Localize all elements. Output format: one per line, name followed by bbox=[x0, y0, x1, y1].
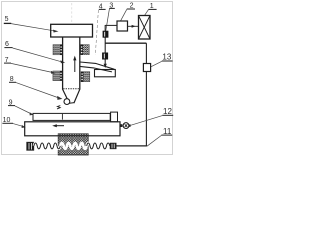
spring wave through damper bbox=[60, 143, 86, 149]
furnace top plate 5 bbox=[51, 24, 93, 37]
heater block upper-right bbox=[81, 45, 90, 55]
leader to furnace tube wall bbox=[13, 48, 62, 62]
leader of 1 to pump box bbox=[145, 10, 149, 16]
leader to table bbox=[13, 124, 24, 127]
pipe from gas line to box 2 bbox=[105, 24, 117, 26]
controller box 13 bbox=[143, 64, 150, 72]
leader to furnace top plate bbox=[11, 24, 54, 31]
heater block lower-left bbox=[53, 71, 62, 81]
vibration damper hatched block bbox=[58, 134, 88, 155]
leader to substrate plate bbox=[15, 106, 32, 114]
nozzle outlet circle bbox=[64, 99, 70, 105]
svg-text:11: 11 bbox=[163, 127, 172, 136]
vertical gas pipe bbox=[104, 25, 106, 67]
shaft coupling left of motor bbox=[120, 124, 122, 127]
heater block upper-left bbox=[53, 45, 62, 55]
side duct upper line bbox=[80, 62, 114, 69]
positioning tick bbox=[61, 114, 63, 120]
leader of 11 to base line bbox=[147, 135, 161, 146]
side duct lower line bbox=[80, 66, 112, 72]
nozzle cone bbox=[63, 89, 70, 103]
substrate plate 9 bbox=[33, 113, 110, 120]
mesh screen line bbox=[63, 88, 79, 90]
feeder tray bbox=[95, 70, 116, 77]
heater block lower-right bbox=[81, 72, 90, 82]
centerline above furnace bbox=[71, 3, 73, 24]
border frame bbox=[2, 2, 173, 155]
pump box 1 with X bbox=[139, 16, 151, 40]
arrow into feeder tray bbox=[104, 64, 107, 68]
furnace tube walls bbox=[62, 37, 64, 90]
leader dash-dot line of 4 bbox=[95, 10, 98, 55]
traverse arrow in table bbox=[56, 125, 65, 127]
leader of 3 to valve bbox=[106, 9, 110, 31]
shaft coupling right of motor bbox=[129, 124, 131, 126]
svg-text:12: 12 bbox=[163, 107, 172, 116]
spring wave left bbox=[34, 143, 60, 149]
leader to lower heater block bbox=[11, 63, 52, 72]
svg-text:5: 5 bbox=[5, 16, 9, 23]
filter box 2 bbox=[117, 21, 128, 31]
motor circle 12 bbox=[123, 123, 129, 129]
gas flow arrow in tube bbox=[74, 59, 76, 72]
svg-text:13: 13 bbox=[162, 53, 171, 62]
leader of 13 bbox=[151, 61, 162, 67]
leader of 12 to motor bbox=[131, 116, 163, 126]
table 10 bbox=[25, 122, 120, 136]
leader of 2 to box 2 bbox=[121, 9, 127, 20]
right bracket block bbox=[111, 112, 118, 122]
right vertical line bbox=[145, 43, 147, 63]
spring wave right bbox=[87, 143, 110, 149]
valve 3 bbox=[102, 53, 107, 59]
connector box2 to box1 with arrow bbox=[128, 25, 139, 27]
leader to nozzle with arrow bbox=[16, 83, 59, 98]
right plug connector bbox=[110, 143, 116, 149]
base bus line 11 bbox=[116, 145, 147, 147]
connector pipe to vacuum branch bbox=[105, 42, 146, 44]
substrate squiggle bbox=[57, 106, 60, 109]
valve 4 bbox=[103, 31, 108, 37]
svg-text:6: 6 bbox=[5, 41, 9, 48]
left plug connector bbox=[27, 142, 34, 150]
